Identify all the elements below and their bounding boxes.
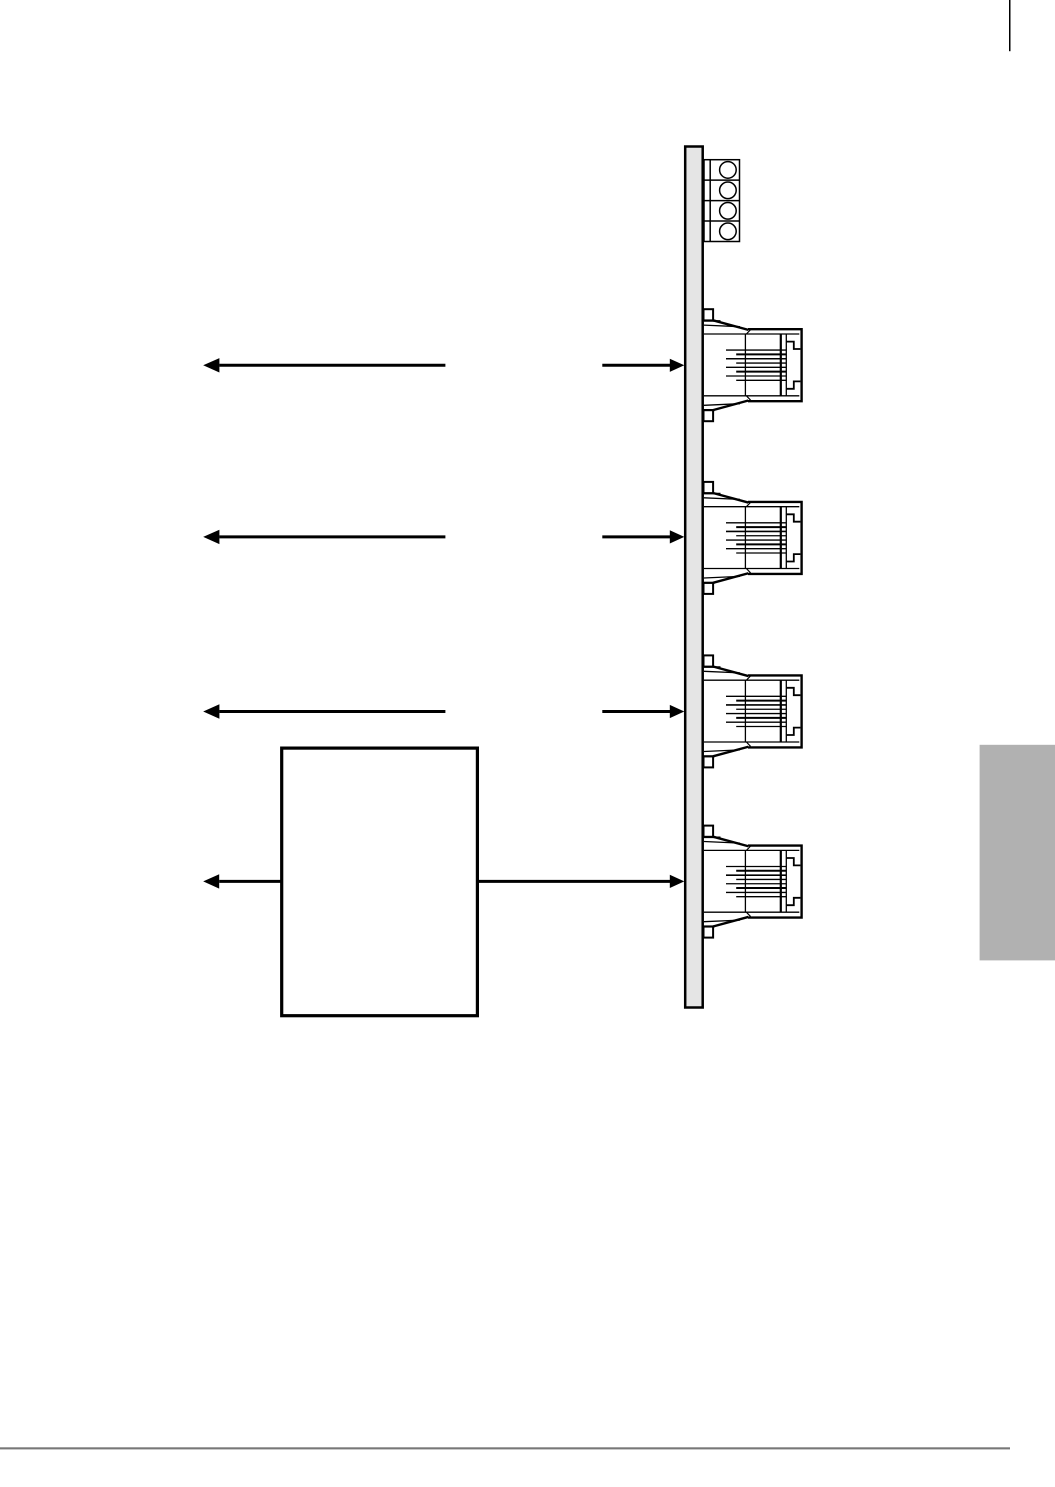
RJ45 plug 1 xyxy=(704,309,802,421)
section thumb tab (gray) xyxy=(980,745,1055,961)
left arrow row 3 xyxy=(203,704,445,718)
left arrow row 1 xyxy=(203,358,445,372)
left arrow row 4 xyxy=(203,874,282,888)
footer rule xyxy=(0,1447,1010,1449)
RJ45 plug 4 xyxy=(704,826,802,938)
left arrow row 2 xyxy=(203,530,445,544)
RJ45 plug 2 xyxy=(704,482,802,594)
terminal block xyxy=(704,160,740,242)
RJ45 plug 3 xyxy=(704,655,802,767)
right arrow row 2 xyxy=(602,530,684,543)
mounting panel bar xyxy=(685,147,703,1008)
page margin rule top right xyxy=(1009,0,1011,51)
right arrow row 1 xyxy=(602,359,684,372)
right arrow row 3 xyxy=(602,705,684,718)
device box xyxy=(282,748,478,1016)
right arrow row 4 xyxy=(477,875,684,888)
